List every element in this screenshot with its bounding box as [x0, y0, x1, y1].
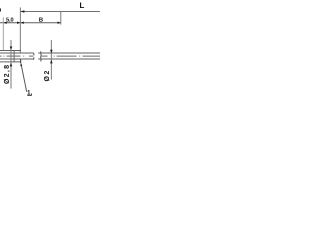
arrowhead head diameter bottom — [10, 63, 13, 67]
extension line left of 5,0 dimension — [2, 17, 4, 50]
extension line right of B dimension — [60, 11, 62, 25]
clipped arrowhead at left image edge — [0, 8, 1, 11]
break S-curve right — [40, 51, 42, 61]
centerline dash-dot — [0, 55, 100, 57]
note 1, — [27, 90, 32, 95]
arrowhead head diameter top — [10, 47, 13, 51]
shaft bottom line right piece — [38, 58, 100, 60]
head diameter dimension line — [10, 40, 12, 89]
head step lower edge — [20, 59, 22, 63]
label L — [80, 3, 84, 9]
arrowhead 5,0 left — [3, 22, 6, 24]
leader line to note 1 — [21, 63, 27, 92]
leader arrowhead — [20, 63, 22, 66]
arrowhead shaft diameter top — [50, 50, 53, 54]
extension line at head step — [19, 7, 21, 53]
arrowhead B right — [58, 22, 61, 24]
shaft top line right piece — [38, 52, 100, 54]
break cap left — [32, 53, 35, 56]
label diameter 2 — [44, 71, 49, 81]
label B — [39, 18, 43, 22]
arrowhead left end of L dimension — [20, 10, 24, 13]
wire L dimension line — [20, 11, 100, 13]
label 5,0 — [6, 18, 13, 23]
shaft diameter dimension line — [50, 40, 52, 80]
head bottom outline — [0, 61, 21, 63]
arrowhead 5,0 right — [17, 22, 20, 24]
arrowhead B left — [20, 22, 23, 24]
shaft top line left piece — [0, 52, 33, 54]
shaft bottom line left piece — [0, 58, 33, 60]
wire B and 5,0 shared dimension line — [0, 22, 61, 24]
arrowhead shaft diameter bottom — [50, 60, 53, 64]
head top outline — [0, 50, 21, 52]
head inner edge — [13, 50, 15, 62]
note underline — [27, 94, 31, 97]
label diameter 2,8 — [4, 65, 10, 84]
